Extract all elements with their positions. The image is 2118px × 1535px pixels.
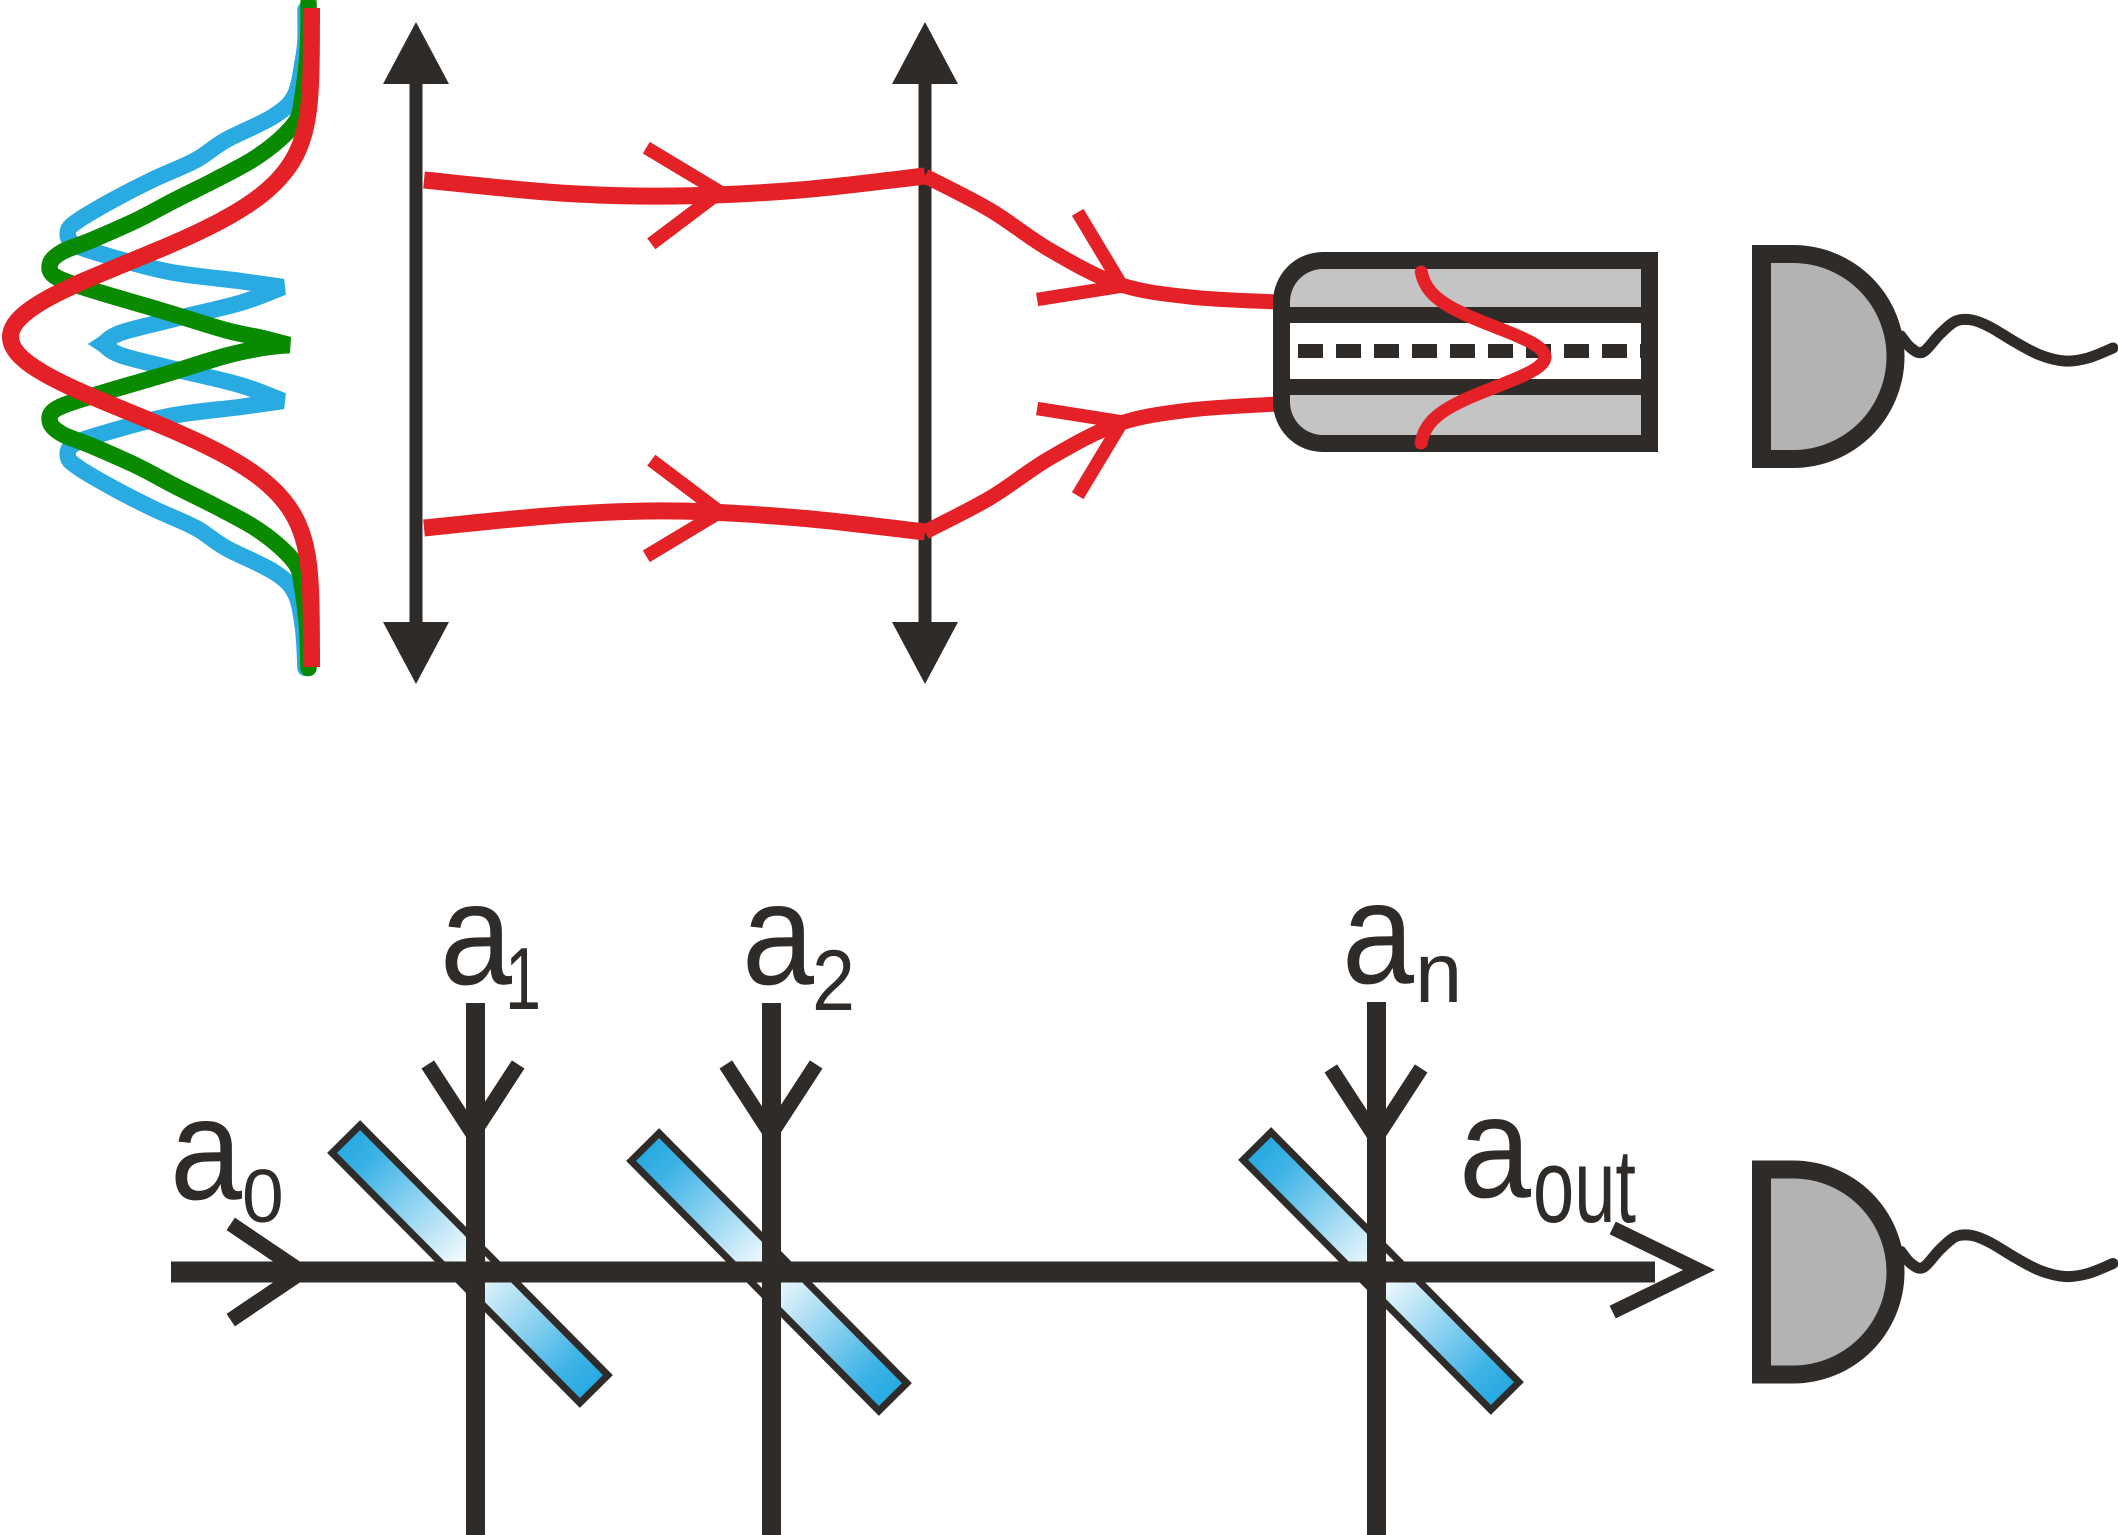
vertical line an	[1367, 1002, 1386, 1535]
beam upper collimated	[424, 176, 925, 196]
beam arrow upper mid	[646, 148, 720, 244]
svg-text:2: 2	[812, 933, 855, 1029]
detector body outline	[1752, 245, 1905, 468]
input mode profile blue (|HG2|)	[68, 10, 306, 668]
beam arrow upper converging	[1037, 212, 1122, 299]
lens top arrowhead	[892, 22, 958, 84]
svg-text:a: a	[170, 1068, 242, 1230]
arrow an down	[1331, 1068, 1421, 1138]
arrow a1 down	[428, 1064, 518, 1134]
detector gray fill	[1771, 1179, 1887, 1366]
lens bottom arrowhead	[383, 622, 449, 684]
lens line x=416	[410, 78, 423, 630]
beamsplitter BS1	[332, 1125, 608, 1403]
fiber core lower boundary	[1290, 379, 1641, 395]
svg-text:a: a	[440, 853, 512, 1015]
beam arrow lower mid	[646, 460, 720, 556]
beam upper converging	[925, 176, 1277, 302]
vertical line a2	[762, 1003, 781, 1535]
detector output wire squiggle	[1901, 319, 2113, 361]
svg-text:1: 1	[505, 929, 541, 1028]
beamsplitter BS2	[631, 1133, 907, 1411]
fiber core white	[1290, 323, 1641, 379]
detector bottom	[1752, 1161, 2113, 1384]
arrow a0 input	[231, 1224, 302, 1320]
svg-text:out: out	[1533, 1128, 1636, 1245]
horizontal beam line a0 to aout	[171, 1262, 1655, 1283]
svg-text:a: a	[742, 853, 814, 1015]
fiber cladding gray	[1290, 269, 1641, 435]
fiber body outline	[1273, 252, 1658, 452]
svg-text:0: 0	[242, 1154, 284, 1238]
vertical line a1	[466, 1003, 485, 1535]
lens top arrowhead	[383, 22, 449, 84]
input mode profile red (fundamental)	[10, 8, 311, 667]
lens line x=925	[919, 78, 932, 630]
arrow aout output	[1613, 1228, 1699, 1312]
fiber mode profile curve	[1421, 272, 1545, 443]
detector body outline	[1752, 1161, 1905, 1384]
svg-text:a: a	[1459, 1066, 1531, 1228]
beam arrow lower converging	[1037, 409, 1122, 496]
beam lower collimated	[424, 511, 925, 532]
lens bottom arrowhead	[892, 622, 958, 684]
svg-text:a: a	[1342, 852, 1414, 1014]
beam lower converging	[925, 404, 1277, 532]
beamsplitter BS3	[1243, 1132, 1519, 1410]
arrow a2 down	[726, 1064, 816, 1134]
fiber core upper boundary	[1290, 307, 1641, 323]
detector output wire squiggle	[1901, 1235, 2113, 1277]
detector gray fill	[1771, 263, 1887, 450]
input mode profile green (|HG1|)	[50, 3, 309, 668]
fiber axis dashed line	[1298, 344, 1641, 358]
svg-text:n: n	[1415, 926, 1462, 1021]
